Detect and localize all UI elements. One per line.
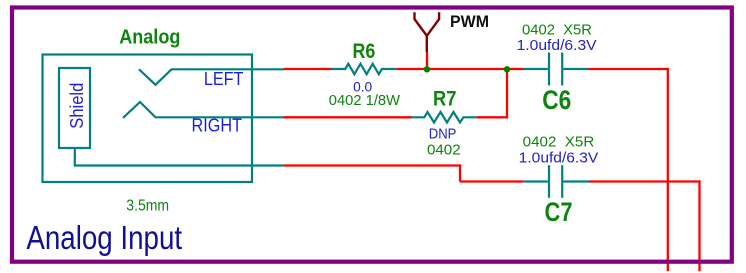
svg-text:0402 X5R: 0402 X5R [523, 135, 595, 151]
svg-text:PWM: PWM [450, 12, 489, 31]
svg-text:R7: R7 [433, 88, 456, 111]
svg-text:RIGHT: RIGHT [192, 116, 243, 136]
svg-text:Shield: Shield [67, 83, 87, 129]
svg-text:Analog Input: Analog Input [26, 219, 182, 256]
svg-text:1.0ufd/6.3V: 1.0ufd/6.3V [517, 38, 597, 54]
svg-text:0402 1/8W: 0402 1/8W [329, 93, 401, 109]
svg-text:C6: C6 [542, 85, 571, 115]
svg-text:0402: 0402 [427, 142, 461, 159]
svg-text:DNP: DNP [429, 126, 457, 143]
svg-text:C7: C7 [545, 197, 573, 227]
svg-text:0402 X5R: 0402 X5R [522, 23, 592, 39]
svg-text:Analog: Analog [119, 26, 180, 49]
svg-text:1.0ufd/6.3V: 1.0ufd/6.3V [519, 151, 599, 167]
svg-text:0.0: 0.0 [353, 79, 372, 94]
svg-text:LEFT: LEFT [204, 69, 244, 89]
svg-text:R6: R6 [353, 40, 376, 63]
svg-text:3.5mm: 3.5mm [126, 198, 169, 215]
